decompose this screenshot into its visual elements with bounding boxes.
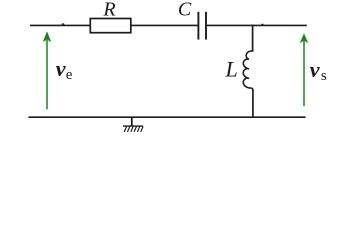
- svg-text:L: L: [224, 57, 237, 82]
- node dot (blue junction mark): [62, 23, 65, 25]
- wire between R and C: [131, 24, 198, 26]
- wire junction down to inductor: [252, 25, 254, 52]
- arrow v_e stem: [46, 40, 48, 109]
- wire top-left segment: [30, 24, 91, 26]
- svg-text:v: v: [56, 56, 66, 81]
- capacitor C right plate: [205, 12, 207, 40]
- arrow v_s head: [300, 33, 308, 43]
- svg-text:e: e: [66, 67, 73, 83]
- svg-text:s: s: [321, 68, 327, 84]
- arrow v_e head: [43, 31, 51, 42]
- wire bottom rail: [28, 116, 305, 118]
- resistor R: [90, 19, 131, 33]
- capacitor C left plate: [197, 12, 199, 40]
- wire C to right end: [207, 24, 307, 26]
- inductor L coil: [243, 51, 253, 90]
- ground stub: [131, 117, 133, 126]
- wire inductor to bottom rail: [252, 90, 254, 118]
- svg-text:C: C: [178, 0, 192, 21]
- ground hatch ticks: [124, 126, 143, 131]
- ground bar: [123, 125, 143, 127]
- junction mark: [261, 24, 263, 26]
- arrow v_s stem: [303, 41, 305, 106]
- svg-text:v: v: [310, 57, 320, 82]
- svg-text:R: R: [102, 0, 115, 21]
